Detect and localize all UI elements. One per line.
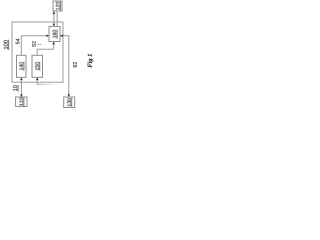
lead line label 52 xyxy=(37,43,41,46)
wire box150 bottom through edge, fading right xyxy=(36,78,38,85)
label 52 xyxy=(32,41,36,46)
caption Fig 1 xyxy=(87,54,93,67)
box 150 xyxy=(32,55,43,77)
label 10 xyxy=(13,85,18,91)
wire 52: box150 top to box160 bottom xyxy=(37,42,54,55)
wire 120-160 right plain xyxy=(56,11,58,27)
box 120 xyxy=(53,1,62,11)
label 54 xyxy=(16,39,20,44)
box 130 xyxy=(64,97,75,108)
box 110 xyxy=(16,97,27,107)
wire 120-160 left double-headed xyxy=(53,12,55,27)
label 100 xyxy=(4,40,9,50)
box 140 xyxy=(17,55,27,77)
wire 62: box160 right edge to box130 top xyxy=(61,36,69,97)
outer rect 100 xyxy=(12,22,63,82)
box 160 xyxy=(49,27,60,42)
wire 54: box140 top to box160 left edge xyxy=(21,36,48,56)
label 62 xyxy=(73,62,77,67)
wire box140 bottom to box110 top xyxy=(20,78,22,97)
